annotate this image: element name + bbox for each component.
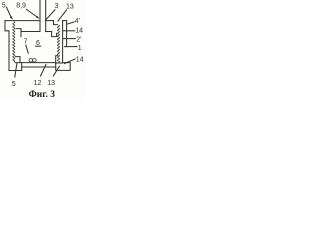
svg-text:4′: 4′ bbox=[75, 18, 81, 25]
svg-text:12: 12 bbox=[34, 80, 42, 87]
leader 13 top bbox=[58, 10, 67, 21]
svg-text:5: 5 bbox=[2, 3, 6, 10]
leader 2' bbox=[64, 38, 76, 40]
left foot bottom bbox=[9, 63, 22, 71]
lid bottom panel left bbox=[21, 31, 40, 33]
svg-text:6: 6 bbox=[36, 40, 40, 47]
arrowhead 8,9 bbox=[36, 16, 39, 19]
svg-text:5: 5 bbox=[12, 81, 16, 88]
leader 1 bbox=[65, 46, 78, 48]
leader 13 bottom bbox=[53, 66, 59, 76]
left wall zigzag break bbox=[13, 22, 15, 63]
leader 4' bbox=[68, 22, 75, 24]
arrowhead 5 top bbox=[10, 16, 13, 20]
left wall lower ledge bbox=[16, 57, 21, 63]
lid top surface right bbox=[46, 20, 54, 22]
right wall outer line bbox=[66, 21, 68, 47]
lid bottom panel right bbox=[46, 31, 52, 33]
right foot bbox=[56, 63, 70, 71]
svg-text:13: 13 bbox=[66, 4, 74, 11]
label 6 underline bbox=[36, 45, 41, 47]
leader 7 bbox=[26, 45, 29, 53]
svg-text:8,9: 8,9 bbox=[16, 3, 26, 10]
right wall top cap bbox=[63, 20, 67, 22]
leader 14 upper bbox=[63, 30, 75, 32]
leader 12 bbox=[41, 65, 46, 76]
lid left skirt bbox=[16, 29, 21, 37]
lid right step bbox=[54, 21, 58, 25]
svg-text:1: 1 bbox=[78, 45, 82, 52]
floor top line bbox=[16, 62, 57, 64]
lid right skirt bbox=[52, 32, 57, 37]
svg-text:3: 3 bbox=[55, 3, 59, 10]
leader 5 top bbox=[6, 7, 11, 18]
right wall zigzag break bbox=[57, 25, 59, 63]
svg-text:14: 14 bbox=[76, 57, 84, 64]
ball 7 left bbox=[29, 59, 33, 63]
leader 14 lower bbox=[65, 59, 76, 64]
leader 3 bbox=[45, 10, 55, 20]
lid top surface left bbox=[5, 20, 40, 22]
right zigzag bottom closure bbox=[56, 62, 63, 64]
tube wall right bbox=[45, 0, 47, 32]
svg-text:Фиг. 3: Фиг. 3 bbox=[29, 90, 56, 100]
right lower inner face bbox=[56, 56, 58, 63]
leader 8,9 bbox=[26, 9, 38, 17]
left wall outer profile bbox=[5, 21, 9, 71]
leader 5 bottom bbox=[15, 63, 17, 77]
svg-text:2′: 2′ bbox=[76, 37, 82, 44]
svg-text:13: 13 bbox=[47, 80, 55, 87]
right wall inner line bbox=[62, 21, 64, 63]
tube wall left bbox=[39, 0, 41, 32]
svg-text:14: 14 bbox=[75, 28, 83, 35]
floor bottom line bbox=[22, 66, 56, 68]
svg-text:7: 7 bbox=[24, 39, 28, 46]
ball 7 right bbox=[33, 59, 37, 63]
